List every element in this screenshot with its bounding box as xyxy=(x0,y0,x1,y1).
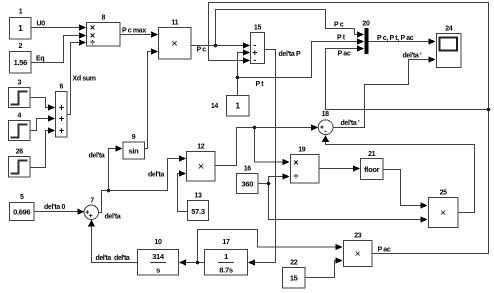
svg-text:1.56: 1.56 xyxy=(14,58,28,67)
svg-text:22: 22 xyxy=(290,260,298,267)
svg-text:P ac: P ac xyxy=(378,247,391,254)
svg-text:del'ta ': del'ta ' xyxy=(341,120,360,127)
svg-text:18: 18 xyxy=(322,111,330,118)
svg-text:13: 13 xyxy=(194,193,202,200)
svg-text:×: × xyxy=(293,158,298,168)
svg-text:÷: ÷ xyxy=(294,172,299,182)
svg-text:3: 3 xyxy=(18,80,22,87)
svg-text:360: 360 xyxy=(241,180,253,189)
svg-text:P c: P c xyxy=(197,47,207,54)
svg-text:1: 1 xyxy=(18,24,23,33)
svg-text:+: + xyxy=(59,103,64,113)
svg-text:÷: ÷ xyxy=(90,38,95,48)
svg-text:×: × xyxy=(440,208,446,219)
svg-text:5: 5 xyxy=(20,194,24,201)
svg-text:24: 24 xyxy=(445,26,453,33)
svg-text:+: + xyxy=(59,126,64,136)
svg-text:del'ta: del'ta xyxy=(96,255,112,262)
svg-text:sin: sin xyxy=(129,147,140,156)
svg-text:19: 19 xyxy=(298,147,306,154)
svg-text:×: × xyxy=(198,161,204,173)
svg-text:P t: P t xyxy=(337,35,346,42)
svg-text:P c: P c xyxy=(334,22,344,29)
svg-text:×: × xyxy=(171,38,177,50)
svg-text:P c, P t, P ac: P c, P t, P ac xyxy=(377,35,414,42)
svg-text:del'ta: del'ta xyxy=(148,172,164,179)
svg-text:16: 16 xyxy=(244,166,252,173)
svg-text:57.3: 57.3 xyxy=(191,207,205,216)
svg-text:+: + xyxy=(89,213,93,220)
svg-text:Xd sum: Xd sum xyxy=(73,76,96,83)
svg-text:20: 20 xyxy=(362,21,370,28)
svg-text:8.7s: 8.7s xyxy=(219,266,233,275)
svg-text:15: 15 xyxy=(290,274,298,283)
svg-text:P t: P t xyxy=(256,81,265,88)
svg-text:4: 4 xyxy=(18,113,22,120)
svg-text:6: 6 xyxy=(60,84,64,91)
svg-text:0.696: 0.696 xyxy=(13,208,30,217)
svg-text:25: 25 xyxy=(440,190,448,197)
svg-text:14: 14 xyxy=(211,103,219,110)
svg-text:8: 8 xyxy=(102,15,106,22)
svg-text:Eq: Eq xyxy=(36,56,44,63)
svg-text:del'ta ': del'ta ' xyxy=(403,53,422,60)
svg-text:23: 23 xyxy=(354,233,362,240)
svg-text:del'ta: del'ta xyxy=(89,153,105,160)
svg-text:1: 1 xyxy=(235,102,240,111)
svg-text:17: 17 xyxy=(222,239,230,246)
svg-text:21: 21 xyxy=(368,151,376,158)
svg-text:7: 7 xyxy=(90,198,94,205)
svg-text:2: 2 xyxy=(19,43,23,50)
svg-text:del'ta: del'ta xyxy=(114,255,130,262)
svg-text:1: 1 xyxy=(224,252,228,261)
svg-text:26: 26 xyxy=(16,149,24,156)
svg-text:+: + xyxy=(59,114,64,124)
svg-text:1: 1 xyxy=(19,9,23,16)
svg-text:12: 12 xyxy=(197,144,205,151)
svg-text:P ac: P ac xyxy=(338,51,351,58)
svg-text:-: - xyxy=(253,55,256,65)
svg-text:10: 10 xyxy=(154,239,162,246)
svg-text:9: 9 xyxy=(132,134,136,141)
svg-text:11: 11 xyxy=(171,20,178,27)
svg-text:×: × xyxy=(355,249,361,260)
svg-text:U0: U0 xyxy=(37,21,46,28)
svg-text:del'ta 0: del'ta 0 xyxy=(44,204,65,211)
svg-text:P c max: P c max xyxy=(122,28,146,35)
svg-text:del'ta P: del'ta P xyxy=(279,51,301,58)
svg-text:314: 314 xyxy=(152,252,165,261)
svg-text:s: s xyxy=(156,266,160,275)
svg-text:del'ta: del'ta xyxy=(105,214,121,221)
svg-text:floor: floor xyxy=(364,165,380,174)
svg-text:15: 15 xyxy=(254,25,262,32)
